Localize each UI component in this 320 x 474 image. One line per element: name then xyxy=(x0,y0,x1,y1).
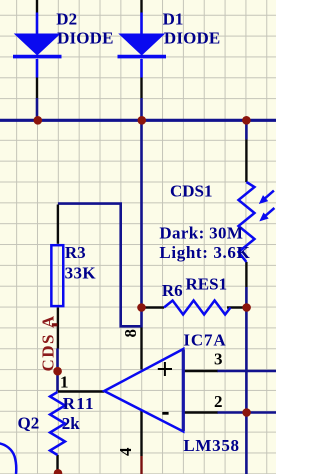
svg-text:Dark: 30M: Dark: 30M xyxy=(159,223,243,242)
svg-text:Light: 3.6K: Light: 3.6K xyxy=(159,243,250,262)
svg-text:8: 8 xyxy=(121,329,140,338)
svg-text:D2: D2 xyxy=(56,10,77,29)
svg-text:3: 3 xyxy=(214,350,223,369)
svg-text:2: 2 xyxy=(214,392,223,411)
svg-text:R3: R3 xyxy=(65,243,86,262)
svg-text:2k: 2k xyxy=(62,414,81,433)
svg-text:DIODE: DIODE xyxy=(57,29,113,48)
svg-text:1: 1 xyxy=(60,373,69,392)
svg-text:R11: R11 xyxy=(63,394,95,413)
svg-text:Q2: Q2 xyxy=(18,414,40,433)
svg-text:RES1: RES1 xyxy=(186,275,228,294)
svg-text:IC7A: IC7A xyxy=(183,330,226,349)
svg-text:CDS1: CDS1 xyxy=(170,182,213,201)
svg-text:CDS A: CDS A xyxy=(39,314,58,371)
svg-text:D1: D1 xyxy=(163,10,184,29)
svg-text:LM358: LM358 xyxy=(183,436,239,455)
svg-text:DIODE: DIODE xyxy=(164,29,220,48)
svg-text:R6: R6 xyxy=(162,281,183,300)
svg-text:4: 4 xyxy=(116,447,135,456)
svg-text:33K: 33K xyxy=(65,263,97,282)
